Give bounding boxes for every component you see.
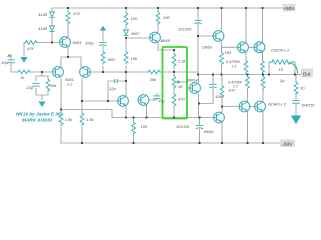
resistor 1k input bbox=[17, 70, 31, 74]
transistor Q13 A1943 bbox=[255, 101, 266, 112]
node dot input line bbox=[41, 71, 43, 73]
wire inductor box sides bbox=[269, 62, 295, 75]
wire B649-top columns x=158 bbox=[158, 8, 174, 50]
svg-text:101/100: 101/100 bbox=[176, 125, 190, 129]
resistor 39k horizontal bbox=[147, 70, 161, 74]
wire diff pair tail bracket bbox=[61, 57, 81, 67]
transistor Q3 5401 diff right bbox=[80, 67, 91, 78]
svg-text:x 2: x 2 bbox=[231, 65, 237, 69]
wire 560/100u column x=103 bbox=[102, 31, 104, 72]
svg-text:A1943 x 2: A1943 x 2 bbox=[267, 102, 287, 107]
wire 470 column / CS transistor x=68 bbox=[67, 8, 69, 57]
svg-text:D669: D669 bbox=[202, 45, 212, 50]
svg-text:+50V: +50V bbox=[284, 6, 296, 11]
transistor Q1 5401 current source bbox=[60, 37, 71, 48]
label -50V bbox=[280, 140, 295, 148]
transistor Q4 VAS left bbox=[118, 96, 129, 107]
wire S9014 collector/emitter column bbox=[199, 75, 214, 118]
svg-text:B649: B649 bbox=[204, 129, 214, 134]
svg-text:100: 100 bbox=[225, 50, 232, 55]
diode 4007 bbox=[123, 30, 128, 35]
node dots top rail bbox=[67, 7, 69, 9]
svg-text:1K: 1K bbox=[178, 84, 183, 89]
svg-text:5401: 5401 bbox=[73, 40, 82, 45]
green highlight rectangle bbox=[163, 47, 188, 119]
wire line F right collector to VAS base bbox=[82, 100, 118, 102]
wire 22p branch bbox=[108, 81, 126, 101]
pot wiper arrow bbox=[178, 81, 182, 83]
transistor Q2 5401 diff left bbox=[53, 67, 64, 78]
node dot D669 base tap bbox=[197, 35, 199, 37]
svg-text:-50V: -50V bbox=[283, 142, 294, 147]
resistor 470 top bbox=[66, 11, 70, 25]
label Out bbox=[301, 69, 313, 78]
arrow up at 100u bbox=[100, 26, 106, 31]
capacitor at VAS right base bbox=[153, 96, 160, 99]
resistor 10 zobel bbox=[294, 81, 298, 95]
inductor coil arc bbox=[288, 63, 298, 74]
ground arrow input bbox=[20, 57, 27, 63]
svg-text:Out: Out bbox=[303, 72, 311, 77]
wire D669 driver column x=221.5 bbox=[222, 8, 238, 75]
svg-text:x 2: x 2 bbox=[66, 82, 73, 87]
wire bootstrap column x=198 top bbox=[198, 8, 213, 75]
svg-text:39k: 39k bbox=[150, 77, 157, 82]
node dot 4007 base tap bbox=[125, 37, 127, 39]
ground arrow feedback bbox=[38, 102, 45, 108]
node dots collectors bbox=[60, 109, 62, 111]
wire 2.2k / pot / 470 column x=174 bbox=[173, 50, 175, 118]
resistor 560 bbox=[101, 51, 105, 65]
svg-text:560: 560 bbox=[108, 57, 115, 62]
transistor Q7 S9014 vbe multiplier bbox=[190, 83, 201, 94]
svg-text:470: 470 bbox=[178, 97, 185, 102]
wire to Out bbox=[295, 74, 301, 76]
node dots line B bbox=[197, 74, 199, 76]
resistor 1.5k right bbox=[80, 112, 84, 126]
node dot 2.2k top bbox=[173, 49, 175, 51]
svg-text:MARK AUDIO: MARK AUDIO bbox=[22, 118, 53, 123]
node dot tail bbox=[67, 56, 69, 58]
inductor resistor 10 horizontal in box bbox=[269, 60, 295, 64]
resistor 10k bbox=[124, 51, 128, 65]
resistor 100 VAS emitter bbox=[132, 121, 136, 135]
svg-text:B649: B649 bbox=[161, 38, 171, 43]
capacitor 104 bbox=[209, 84, 216, 87]
svg-text:1.5k: 1.5k bbox=[86, 117, 95, 122]
svg-text:4007: 4007 bbox=[131, 31, 141, 36]
capacitor 104/250 zobel bbox=[292, 100, 299, 103]
transistor Q11 C5200 bbox=[254, 42, 265, 53]
wire B649 top base line y=38 bbox=[126, 37, 150, 39]
svg-text:39k: 39k bbox=[50, 83, 57, 88]
resistor 1.5k left bbox=[59, 112, 63, 126]
capacitor 22u feedback bbox=[32, 83, 39, 86]
svg-text:101/100: 101/100 bbox=[178, 28, 192, 32]
resistor 39k feedback bbox=[46, 78, 50, 92]
svg-text:470: 470 bbox=[73, 11, 80, 16]
svg-text:S9014: S9014 bbox=[186, 78, 198, 83]
node dots 22p bbox=[107, 100, 109, 102]
svg-text:1.5k: 1.5k bbox=[65, 117, 74, 122]
capacitor 101/100 bootstrap bottom bbox=[196, 125, 203, 128]
wire 104 cap column x=213 bbox=[212, 75, 215, 118]
resistor 0.47 upper left bbox=[244, 60, 248, 74]
node dots bottom rail bbox=[81, 142, 83, 144]
svg-text:47μ: 47μ bbox=[159, 100, 165, 104]
diode D1 4148 bbox=[49, 12, 54, 17]
capacitor 100u bbox=[99, 42, 106, 45]
resistor 47k bbox=[24, 41, 38, 45]
node dots line D bbox=[125, 117, 127, 119]
svg-text:47k: 47k bbox=[27, 46, 34, 51]
svg-text:150: 150 bbox=[131, 16, 138, 21]
svg-text:2μ: 2μ bbox=[279, 78, 285, 83]
capacitor 22p plates bbox=[115, 79, 118, 83]
ground arrow zobel bbox=[291, 116, 301, 125]
node dots line A bbox=[102, 71, 104, 73]
resistor 100 driver bottom bbox=[220, 85, 224, 99]
wire B649-lower columns x=222 bbox=[222, 75, 239, 144]
wire input column and base line y=72 bbox=[11, 57, 53, 72]
diode D2 4148 bbox=[49, 26, 54, 31]
resistor 0.47 lower right bbox=[261, 76, 265, 90]
resistor 470 bias bbox=[172, 93, 176, 107]
resistor 0.47 lower left bbox=[246, 76, 250, 90]
label +50V bbox=[283, 4, 296, 12]
capacitor 101/100 bootstrap top bbox=[194, 20, 201, 23]
svg-text:C5200 x 2: C5200 x 2 bbox=[271, 48, 290, 53]
resistor 2.2k bbox=[172, 53, 176, 67]
wire line E from left collector bbox=[61, 110, 112, 118]
svg-text:HK16 by Javier E 06: HK16 by Javier E 06 bbox=[16, 112, 61, 117]
capacitor 10u input bbox=[7, 60, 14, 63]
svg-text:100: 100 bbox=[229, 89, 236, 93]
svg-text:10: 10 bbox=[300, 86, 305, 91]
resistor 100 B649 top bbox=[156, 11, 160, 25]
potentiometer 1K bbox=[172, 75, 176, 89]
svg-text:104/250: 104/250 bbox=[301, 104, 315, 108]
svg-text:100: 100 bbox=[163, 15, 170, 20]
node dot S9014 bottom bbox=[198, 103, 200, 105]
wire zobel column x=296 bbox=[295, 75, 297, 116]
wire A1943 emitters/collectors bbox=[248, 75, 264, 144]
transistor Q5 VAS right bbox=[138, 95, 149, 106]
svg-text:22μ: 22μ bbox=[26, 85, 34, 90]
wire diode chain column x=52 bbox=[52, 8, 60, 43]
svg-text:22p: 22p bbox=[108, 86, 116, 91]
svg-text:IN: IN bbox=[8, 53, 12, 58]
wire top rail +50V bbox=[52, 7, 282, 9]
wire line A y=72 bbox=[88, 71, 198, 73]
wire VAS emitters bracket and line D bbox=[112, 105, 213, 143]
svg-text:4148: 4148 bbox=[38, 12, 48, 17]
node dot A1943 base bus bbox=[221, 106, 223, 108]
resistor 150 bbox=[124, 12, 128, 26]
svg-text:104: 104 bbox=[215, 94, 222, 99]
svg-text:4148: 4148 bbox=[38, 26, 48, 31]
resistor 0.47 upper right bbox=[261, 60, 265, 74]
wire column x=126 rail to VAS collector bbox=[125, 8, 127, 96]
svg-text:10: 10 bbox=[279, 67, 284, 72]
resistor 100 driver top bbox=[220, 52, 224, 66]
svg-text:2.2k: 2.2k bbox=[177, 59, 187, 64]
transistor Q8 D669 driver top bbox=[213, 31, 224, 42]
svg-text:1k: 1k bbox=[20, 75, 25, 80]
node dot base Q1 bbox=[51, 42, 53, 44]
wire bottom rail -50V bbox=[61, 142, 281, 144]
wire diff collectors to 1.5k and rails bbox=[61, 79, 82, 144]
svg-text:0.47/5W: 0.47/5W bbox=[226, 60, 240, 64]
transistor Q10 C5200 bbox=[238, 42, 249, 53]
transistor Q9 B649 driver bottom bbox=[214, 112, 225, 123]
wire line B output y=74.5 bbox=[198, 74, 303, 76]
svg-text:100μ: 100μ bbox=[85, 41, 95, 46]
svg-text:10μ: 10μ bbox=[1, 60, 8, 65]
transistor Q6 B649 VAS top bbox=[150, 32, 161, 43]
svg-text:100: 100 bbox=[141, 124, 148, 129]
wire 47k row and ground stem bbox=[24, 43, 52, 57]
wire C5200 collectors/emitters bbox=[246, 8, 263, 75]
wire VAS right base cap bbox=[149, 93, 157, 100]
transistor Q12 A1943 bbox=[239, 101, 250, 112]
svg-text:10k: 10k bbox=[131, 56, 138, 61]
wire feedback branch top/bottom brackets bbox=[36, 72, 48, 100]
wire pot wiper to S9014 base bbox=[181, 82, 190, 88]
